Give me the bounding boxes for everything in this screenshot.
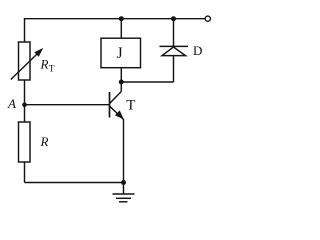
wire left branch upper bbox=[24, 18, 26, 42]
wire top rail bbox=[25, 18, 206, 20]
transistor T emitter lead bbox=[110, 106, 124, 194]
transistor T emitter arrowhead bbox=[115, 110, 124, 119]
junction dot above J bbox=[119, 16, 124, 21]
svg-text:T: T bbox=[126, 98, 135, 114]
ground bar 2 bbox=[116, 197, 131, 199]
wire collector node to diode bbox=[121, 81, 173, 83]
terminal (open circle) top right bbox=[205, 16, 210, 21]
transistor T base bar bbox=[109, 92, 111, 118]
diode D cathode bar bbox=[160, 45, 189, 47]
transistor T collector lead bbox=[110, 82, 122, 103]
node A junction dot bbox=[22, 102, 27, 107]
diode D triangle bbox=[162, 47, 186, 56]
wire J to collector node bbox=[120, 68, 122, 82]
wire R to bottom rail bbox=[24, 162, 26, 183]
wire diode branch vertical bbox=[173, 19, 175, 82]
svg-text:T: T bbox=[49, 65, 55, 75]
junction dot collector node bbox=[119, 80, 124, 85]
svg-text:R: R bbox=[40, 57, 49, 72]
resistor RT (thermistor body) bbox=[19, 42, 31, 80]
junction dot above diode bbox=[171, 16, 176, 21]
wire base (node A to transistor) bbox=[25, 104, 110, 106]
wire RT to node A bbox=[24, 80, 26, 105]
svg-text:A: A bbox=[7, 96, 16, 111]
ground bar 1 bbox=[113, 193, 135, 195]
svg-text:D: D bbox=[193, 43, 202, 58]
wire bottom rail bbox=[25, 182, 124, 184]
resistor R body bbox=[19, 122, 31, 162]
ground bar 3 bbox=[119, 201, 128, 203]
svg-text:J: J bbox=[117, 45, 123, 62]
relay coil J box bbox=[101, 38, 141, 67]
wire node A to resistor R bbox=[24, 105, 26, 122]
svg-text:R: R bbox=[40, 134, 49, 149]
junction dot emitter/bottom rail bbox=[121, 180, 126, 185]
thermistor arrow bbox=[11, 52, 40, 80]
wire top rail to J bbox=[120, 19, 122, 39]
